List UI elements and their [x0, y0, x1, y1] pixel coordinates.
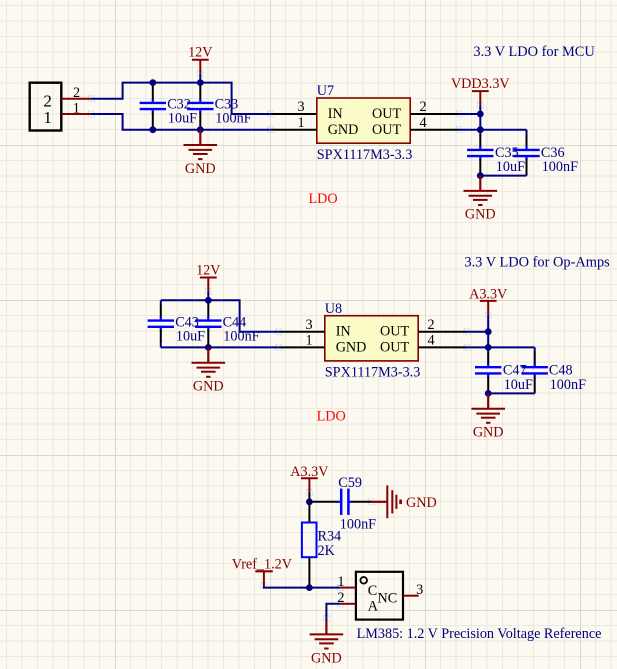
svg-text:1: 1	[297, 115, 304, 131]
svg-text:3.3 V LDO for Op-Amps: 3.3 V LDO for Op-Amps	[464, 255, 610, 271]
svg-text:Vref_1.2V: Vref_1.2V	[232, 556, 293, 572]
svg-text:SPX1117M3-3.3: SPX1117M3-3.3	[325, 365, 421, 381]
svg-text:IN: IN	[328, 106, 343, 122]
svg-text:3.3 V LDO for MCU: 3.3 V LDO for MCU	[473, 44, 595, 60]
svg-text:NC: NC	[378, 590, 398, 606]
svg-text:2K: 2K	[318, 543, 336, 559]
svg-text:100nF: 100nF	[215, 111, 251, 127]
svg-text:1: 1	[337, 574, 344, 590]
svg-text:100nF: 100nF	[223, 328, 259, 344]
svg-text:10uF: 10uF	[168, 111, 197, 127]
svg-text:A3.3V: A3.3V	[290, 464, 329, 480]
svg-text:GND: GND	[336, 340, 367, 356]
svg-text:10uF: 10uF	[496, 159, 525, 175]
svg-text:12V: 12V	[196, 262, 221, 278]
svg-text:OUT: OUT	[380, 340, 409, 356]
svg-text:3: 3	[416, 582, 423, 598]
svg-text:2: 2	[419, 99, 426, 115]
svg-text:GND: GND	[473, 425, 504, 441]
svg-text:GND: GND	[193, 379, 224, 395]
svg-text:GND: GND	[311, 650, 342, 666]
svg-text:LDO: LDO	[317, 409, 346, 425]
svg-text:1: 1	[305, 333, 312, 349]
svg-text:GND: GND	[328, 122, 359, 138]
svg-text:OUT: OUT	[372, 122, 401, 138]
svg-text:1: 1	[73, 101, 80, 117]
svg-text:4: 4	[419, 115, 426, 131]
svg-text:1: 1	[43, 108, 52, 127]
svg-text:GND: GND	[185, 161, 216, 177]
svg-text:2: 2	[73, 85, 80, 101]
svg-text:C: C	[368, 583, 377, 599]
svg-text:OUT: OUT	[380, 324, 409, 340]
svg-text:IN: IN	[336, 324, 351, 340]
svg-text:SPX1117M3-3.3: SPX1117M3-3.3	[317, 147, 413, 163]
svg-text:100nF: 100nF	[550, 377, 586, 393]
svg-text:U7: U7	[317, 83, 334, 99]
svg-text:VDD3.3V: VDD3.3V	[451, 76, 510, 92]
svg-text:2: 2	[427, 317, 434, 333]
svg-text:GND: GND	[465, 207, 496, 223]
svg-text:100nF: 100nF	[542, 159, 578, 175]
svg-text:10uF: 10uF	[504, 377, 533, 393]
svg-text:OUT: OUT	[372, 106, 401, 122]
svg-text:12V: 12V	[188, 45, 213, 61]
svg-text:LM385: 1.2 V Precision Voltage: LM385: 1.2 V Precision Voltage Reference	[357, 626, 602, 642]
svg-text:4: 4	[427, 333, 434, 349]
svg-text:C59: C59	[338, 475, 362, 491]
svg-text:10uF: 10uF	[176, 328, 205, 344]
svg-text:LDO: LDO	[309, 191, 338, 207]
svg-text:100nF: 100nF	[340, 517, 376, 533]
svg-text:A3.3V: A3.3V	[469, 287, 508, 303]
svg-text:U8: U8	[325, 301, 342, 317]
svg-text:3: 3	[305, 317, 312, 333]
svg-text:GND: GND	[406, 495, 437, 511]
svg-text:3: 3	[297, 99, 304, 115]
